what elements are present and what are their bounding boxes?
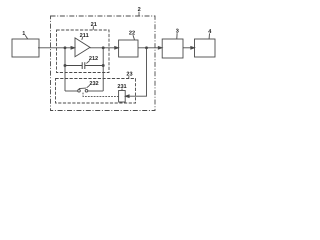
svg-text:22: 22 bbox=[129, 31, 135, 37]
wire amp output to box 22 bbox=[90, 47, 117, 49]
wire feedback to 231 from output node bbox=[127, 48, 147, 96]
node input junction bbox=[64, 47, 66, 49]
arrowhead into box 3 bbox=[158, 47, 162, 50]
node cap left junction bbox=[64, 65, 66, 67]
label 22 bbox=[129, 31, 135, 40]
arrowhead into box 4 bbox=[191, 47, 195, 50]
label 21 bbox=[91, 22, 97, 30]
wire box22 to box 3 bbox=[138, 47, 161, 49]
dashed box 23 bbox=[56, 79, 136, 104]
wire box3 to box 4 bbox=[183, 47, 193, 49]
arrowhead into amp bbox=[71, 47, 75, 50]
node feedback tap junction bbox=[146, 47, 148, 49]
label 211 bbox=[80, 33, 89, 40]
label 3 bbox=[176, 29, 179, 39]
label 1 bbox=[22, 31, 27, 39]
label 2 bbox=[138, 7, 141, 16]
label 232 bbox=[87, 81, 99, 88]
arrowhead into box 22 bbox=[115, 47, 119, 50]
capacitor 212 bbox=[82, 62, 85, 69]
box 4 bbox=[195, 39, 216, 57]
wire control dashed from switch to box 231 bbox=[83, 93, 118, 97]
wire switch branch right bbox=[88, 90, 103, 92]
svg-text:1: 1 bbox=[22, 31, 25, 37]
svg-text:211: 211 bbox=[80, 33, 89, 39]
dashed box 21 bbox=[57, 30, 110, 73]
arrowhead into box 231 bbox=[125, 95, 129, 98]
label 231 bbox=[117, 84, 126, 90]
label 212 bbox=[86, 56, 98, 64]
box 22 bbox=[119, 40, 138, 57]
switch 232 bbox=[78, 88, 88, 92]
wire box1 to amp input bbox=[38, 47, 73, 49]
wire feedback left vertical bbox=[64, 48, 66, 91]
node output junction bbox=[102, 47, 104, 49]
box 3 bbox=[162, 39, 183, 58]
svg-text:212: 212 bbox=[89, 56, 98, 62]
wire capacitor branch right bbox=[85, 65, 103, 67]
svg-text:23: 23 bbox=[126, 72, 132, 78]
wire feedback right vertical bbox=[102, 48, 104, 91]
box 231 bbox=[119, 91, 126, 103]
node cap right junction bbox=[102, 65, 104, 67]
dash-dot boundary box 2 bbox=[51, 16, 156, 111]
op-amp 211 (amplifier triangle) bbox=[75, 38, 90, 57]
wire capacitor branch left bbox=[65, 65, 82, 67]
svg-text:4: 4 bbox=[208, 29, 212, 35]
label 23 bbox=[126, 72, 132, 79]
box 1 bbox=[12, 39, 39, 57]
wire switch branch left bbox=[65, 90, 78, 92]
label 4 bbox=[208, 29, 212, 39]
svg-text:232: 232 bbox=[89, 81, 98, 87]
